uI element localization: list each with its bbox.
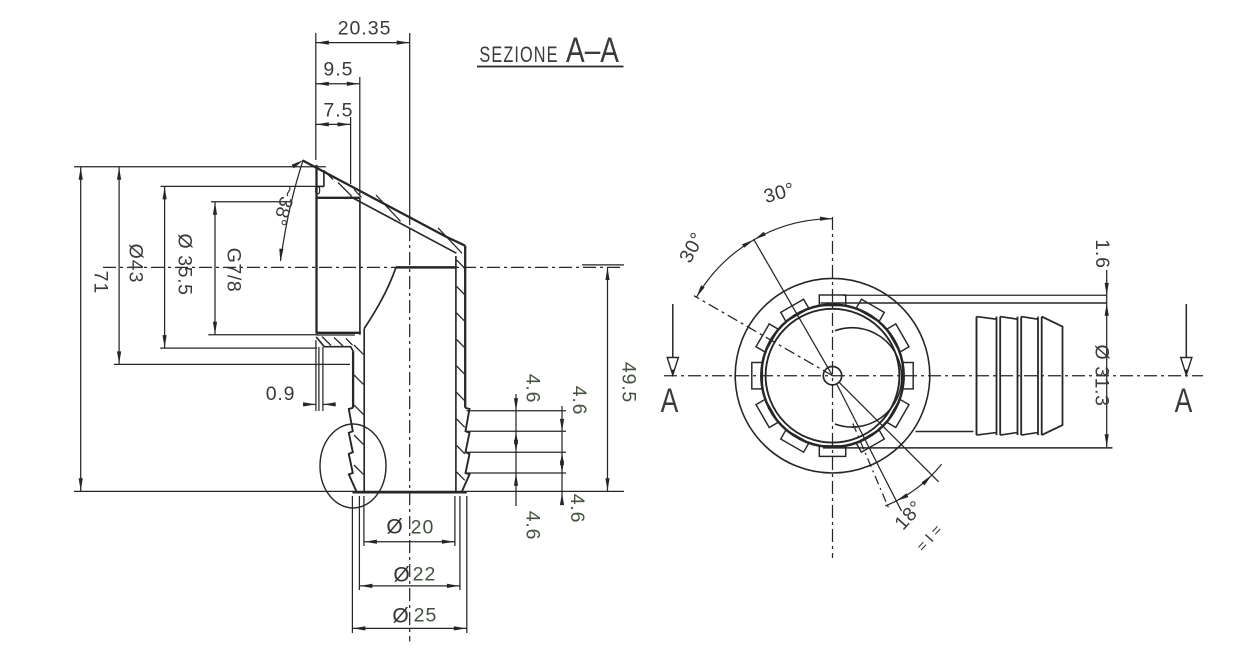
- svg-text:Ø: Ø: [393, 564, 409, 587]
- svg-text:7.5: 7.5: [323, 100, 353, 122]
- svg-text:20: 20: [411, 516, 435, 538]
- svg-text:30°: 30°: [675, 229, 709, 267]
- left barb profile: [349, 408, 357, 493]
- dimension 1.6: [1091, 239, 1113, 447]
- svg-text:18°: 18°: [890, 496, 927, 534]
- castellation slots (12x around ring): [752, 295, 913, 456]
- 18° bisector dash: [853, 424, 889, 509]
- 30° axis dash-dot (upper-left): [694, 296, 833, 376]
- thread bore right wall: [359, 198, 361, 335]
- internal bore arc (projected passage): [835, 328, 902, 427]
- svg-text:22: 22: [413, 564, 437, 586]
- tube outer right wall: [464, 246, 466, 408]
- thread bore bottom edge (thick): [317, 332, 361, 334]
- bore top edge (thick horizontal at centerline): [396, 266, 457, 269]
- svg-text:G7/8: G7/8: [223, 248, 245, 293]
- vertical bore right wall: [455, 256, 457, 492]
- vertical centerline (outlet axis): [409, 228, 411, 642]
- counterbore corner vertical: [323, 170, 325, 186]
- svg-text:30°: 30°: [761, 178, 797, 208]
- svg-text:Ø43: Ø43: [125, 244, 147, 284]
- thread ring inner circle: [766, 309, 900, 443]
- right view horizontal centerline: [664, 375, 1203, 377]
- outer cone surface (slanted top edge): [303, 160, 466, 245]
- svg-text:49.5: 49.5: [618, 362, 640, 403]
- vertical bore left wall: [363, 328, 365, 492]
- svg-text:A: A: [1175, 382, 1193, 420]
- svg-text:4.6: 4.6: [566, 494, 588, 524]
- section hatching (cut walls): [322, 171, 465, 480]
- svg-text:4.6: 4.6: [522, 374, 544, 404]
- svg-text:1.6: 1.6: [1091, 239, 1113, 269]
- svg-text:A: A: [661, 382, 679, 420]
- dimension 38° (cone angle, with ~ approx sign): [268, 160, 303, 261]
- dimension Ø25 (barb crest): [352, 496, 466, 633]
- section arrow A (right): [1175, 304, 1193, 420]
- barb ribs (right view): [977, 317, 1063, 436]
- svg-text:0.9: 0.9: [266, 383, 296, 405]
- svg-text:Ø: Ø: [386, 516, 402, 539]
- thread bore top edge: [317, 197, 360, 199]
- 0.9 step notch on flange face: [316, 187, 320, 194]
- dimensions 4.6 x4 (barb pitches): [467, 374, 591, 541]
- title SEZIONE A-A (underlined): [477, 30, 624, 70]
- svg-text:20.35: 20.35: [338, 18, 392, 40]
- dimension 20.35 (flange face to outlet axis): [316, 18, 410, 225]
- barb neck outlines + slot tangent lines: [821, 295, 1113, 448]
- dimension 71 (overall height): [74, 167, 326, 492]
- svg-text:~38°: ~38°: [268, 183, 299, 228]
- dimension 0.9 (flange step): [266, 340, 336, 411]
- flange face (left vertical edge of body): [315, 165, 317, 334]
- dimension Ø20 (bore): [364, 496, 455, 546]
- svg-text:= I =: = I =: [913, 521, 946, 555]
- svg-text:4.6: 4.6: [522, 511, 544, 541]
- dimension Ø35.5 (counterbore diameter): [160, 186, 317, 348]
- svg-text:4.6: 4.6: [568, 386, 590, 416]
- dimension G7/8 (pipe thread): [208, 202, 318, 335]
- right view vertical centerline: [832, 217, 834, 558]
- svg-text:Ø 35.5: Ø 35.5: [174, 233, 196, 295]
- svg-text:Ø: Ø: [392, 605, 408, 628]
- 18° dimension arc: [885, 464, 942, 506]
- dimension 7.5 (counterbore depth): [316, 100, 354, 184]
- dimension Ø43 (flange outer diameter): [114, 167, 350, 365]
- tube outer left wall: [352, 351, 354, 408]
- svg-text:71: 71: [90, 271, 112, 295]
- svg-text:SEZIONE: SEZIONE: [479, 43, 558, 68]
- dimension 9.5 (thread depth): [316, 58, 360, 195]
- bore fillet curve (left side of passage): [364, 268, 396, 329]
- thread bore bottom edge (thin): [317, 334, 356, 336]
- svg-text:A–A: A–A: [566, 30, 620, 70]
- svg-text:Ø 31.3: Ø 31.3: [1091, 344, 1113, 406]
- 18° wedge lines: [837, 383, 939, 511]
- detail circle (ellipse around lower-left barb): [320, 424, 386, 508]
- right barb profile: [462, 408, 470, 493]
- bottom extension line: [74, 490, 624, 492]
- section arrow A (left): [661, 304, 679, 420]
- dimension Ø22 (barb valley): [359, 496, 460, 590]
- svg-text:9.5: 9.5: [323, 58, 353, 80]
- center hole circle: [823, 367, 841, 385]
- 30°+30° dimension arc: [697, 217, 833, 298]
- dimension 49.5 (axis to bottom): [582, 265, 640, 491]
- counterbore top edge / Ø35.5 upper extension: [161, 185, 325, 187]
- thread ring outer circle: [761, 305, 903, 447]
- flange bottom chamfer: [316, 337, 353, 351]
- right view outer circle (flange Ø43): [735, 278, 930, 473]
- svg-text:25: 25: [414, 605, 438, 627]
- horizontal centerline (inlet axis): [103, 266, 624, 268]
- 60° radius line (solid): [754, 239, 833, 376]
- inner cone surface: [350, 197, 456, 254]
- part bottom edge: [352, 491, 466, 493]
